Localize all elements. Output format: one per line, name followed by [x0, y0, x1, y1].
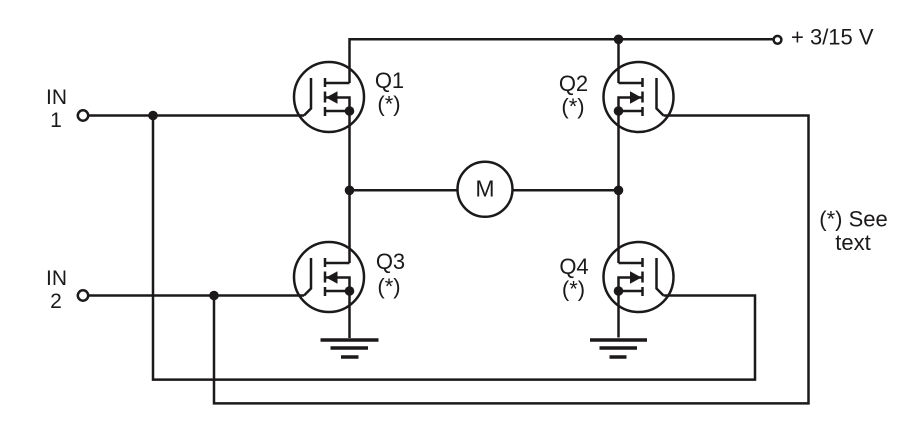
- svg-text:Q4: Q4: [559, 254, 588, 279]
- svg-text:2: 2: [50, 290, 62, 313]
- label IN 2: [46, 267, 67, 313]
- svg-text:Q3: Q3: [376, 249, 405, 274]
- svg-text:1: 1: [50, 109, 62, 132]
- transistor Q1: [294, 62, 364, 132]
- svg-text:(*): (*): [561, 94, 584, 119]
- node left motor junction: [345, 186, 355, 196]
- wire Q2 source to right motor node: [617, 111, 620, 190]
- wire Q2 drain: [617, 39, 620, 83]
- wire Q4 source to ground: [617, 291, 620, 338]
- ground under Q4: [590, 340, 647, 357]
- wire IN2 junction down, bottom run, up to Q2 gate: [214, 116, 809, 404]
- node IN1 junction: [148, 111, 158, 121]
- wire left motor node to motor: [350, 189, 458, 192]
- wire IN2 to Q3 gate: [89, 294, 305, 297]
- label Q1 (*): [375, 68, 404, 117]
- terminal +3/15V: [774, 36, 782, 44]
- terminal IN2: [78, 290, 88, 300]
- svg-text:Q1: Q1: [375, 68, 404, 93]
- wire IN1 to Q1 gate: [89, 114, 305, 117]
- svg-text:(*): (*): [377, 274, 400, 299]
- svg-text:(*) See: (*) See: [819, 207, 887, 232]
- wire Q3 source to ground: [348, 291, 351, 338]
- label Q2 (*): [559, 71, 588, 119]
- label Q3 (*): [376, 249, 405, 299]
- node V+ rail junction: [614, 35, 624, 45]
- label (*) See text: [819, 207, 887, 256]
- svg-text:Q2: Q2: [559, 71, 588, 96]
- wire left motor node to Q3 drain: [348, 190, 351, 263]
- transistor Q3: [294, 242, 364, 312]
- label Q4 (*): [559, 254, 588, 302]
- svg-text:M: M: [475, 176, 494, 202]
- node right motor junction: [614, 186, 624, 196]
- svg-text:(*): (*): [377, 92, 400, 117]
- wire right motor node to Q4 drain: [617, 190, 620, 263]
- transistor Q4: [604, 242, 674, 312]
- svg-text:+ 3/15 V: + 3/15 V: [791, 25, 874, 50]
- terminal IN1: [78, 110, 88, 120]
- svg-text:IN: IN: [46, 267, 67, 290]
- svg-text:(*): (*): [562, 277, 585, 302]
- node IN2 junction: [209, 291, 219, 301]
- wire IN1 junction down, bottom run, up to Q4 gate: [153, 116, 755, 380]
- wire V+ rail and Q1 drain: [350, 39, 773, 83]
- svg-text:text: text: [835, 230, 870, 255]
- wire Q1 source to left motor node: [348, 111, 351, 190]
- label IN 1: [46, 86, 67, 132]
- motor M: [458, 162, 513, 217]
- svg-text:IN: IN: [46, 86, 67, 109]
- wire motor to right motor node: [513, 189, 619, 192]
- ground under Q3: [321, 340, 379, 357]
- transistor Q2: [604, 62, 674, 132]
